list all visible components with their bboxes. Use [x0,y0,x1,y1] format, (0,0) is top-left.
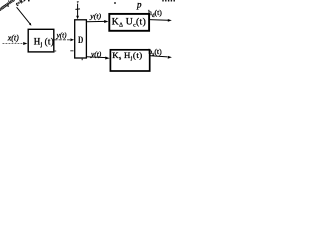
block K_s H_j(t) [110,50,149,71]
svg-text:D: D [78,35,83,46]
block K_A U_c(t) (adaptive, bold border) [109,14,149,31]
f sampling arrow into D [77,1,79,4]
svg-text:x(t): x(t) [7,34,19,43]
wire input arrow [3,43,24,45]
speck near top middle [114,2,116,4]
tick below D [81,59,83,61]
dotted specks top right [162,0,175,2]
stray tick left of D [70,50,73,52]
block D (decimator) [75,20,87,58]
svg-text:KΔ Uc(t): KΔ Uc(t) [112,17,146,29]
svg-text:Hj (t): Hj (t) [34,37,54,49]
annotation arrow to block H [17,7,31,24]
svg-text:p: p [136,0,142,9]
svg-text:y(t): y(t) [89,11,101,20]
svg-text:y(t): y(t) [56,31,67,39]
speck top left of H area [28,0,30,1]
stray tick right of H bottom [53,50,56,52]
block H_j(t) [28,29,54,52]
